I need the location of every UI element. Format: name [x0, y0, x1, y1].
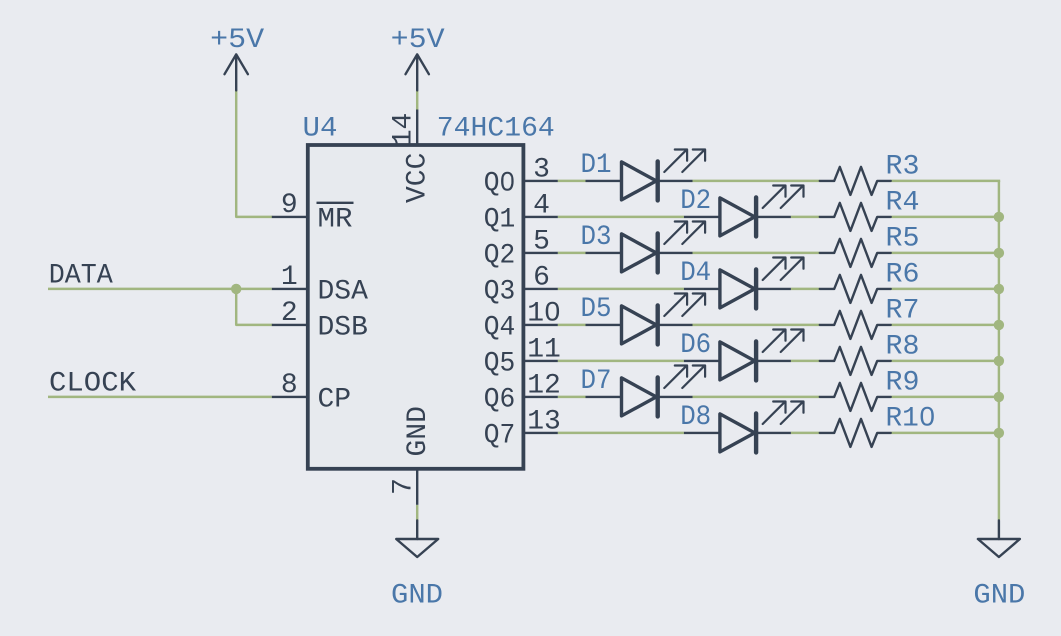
svg-text:+5V: +5V — [210, 25, 264, 56]
svg-text:14: 14 — [389, 113, 420, 147]
svg-text:MR: MR — [318, 205, 353, 236]
svg-text:Q1: Q1 — [484, 205, 516, 236]
svg-text:D6: D6 — [680, 330, 711, 361]
svg-text:D8: D8 — [680, 402, 711, 433]
svg-text:U4: U4 — [303, 114, 338, 145]
svg-text:D3: D3 — [581, 222, 612, 253]
svg-text:D2: D2 — [680, 186, 711, 217]
svg-text:12: 12 — [527, 371, 561, 402]
svg-text:R4: R4 — [886, 187, 920, 218]
svg-text:6: 6 — [533, 263, 550, 294]
svg-text:D5: D5 — [581, 294, 612, 325]
svg-text:Q2: Q2 — [484, 241, 516, 272]
svg-text:DSA: DSA — [318, 277, 369, 308]
svg-text:R3: R3 — [886, 151, 920, 182]
svg-text:DATA: DATA — [49, 260, 113, 291]
svg-text:Q7: Q7 — [484, 421, 516, 452]
svg-text:R7: R7 — [886, 295, 920, 326]
svg-text:R5: R5 — [886, 223, 920, 254]
svg-text:8: 8 — [281, 370, 298, 401]
svg-text:D7: D7 — [581, 366, 612, 397]
svg-text:GND: GND — [403, 406, 434, 456]
svg-text:4: 4 — [533, 191, 550, 222]
svg-text:2: 2 — [281, 298, 298, 329]
svg-text:VCC: VCC — [403, 153, 434, 203]
svg-text:D1: D1 — [581, 150, 612, 181]
svg-text:Q5: Q5 — [484, 349, 516, 380]
svg-text:R9: R9 — [886, 367, 920, 398]
svg-text:+5V: +5V — [391, 25, 445, 56]
svg-text:Q3: Q3 — [484, 277, 516, 308]
svg-text:DSB: DSB — [318, 313, 368, 344]
svg-text:CLOCK: CLOCK — [49, 368, 136, 399]
svg-text:D4: D4 — [680, 258, 711, 289]
svg-text:R6: R6 — [886, 259, 920, 290]
svg-text:1: 1 — [281, 262, 298, 293]
svg-text:GND: GND — [973, 580, 1025, 611]
svg-text:74HC164: 74HC164 — [437, 114, 555, 145]
svg-text:Q6: Q6 — [484, 385, 516, 416]
svg-text:13: 13 — [527, 407, 561, 438]
svg-text:7: 7 — [389, 478, 420, 495]
svg-text:R8: R8 — [886, 331, 920, 362]
svg-text:CP: CP — [318, 385, 352, 416]
svg-text:GND: GND — [391, 580, 443, 611]
svg-text:9: 9 — [281, 190, 298, 221]
svg-text:3: 3 — [533, 155, 550, 186]
svg-text:5: 5 — [533, 227, 550, 258]
svg-text:Q4: Q4 — [484, 313, 516, 344]
svg-text:11: 11 — [527, 335, 561, 366]
